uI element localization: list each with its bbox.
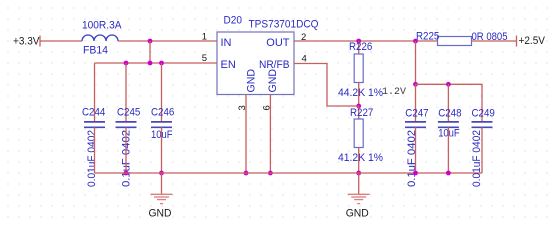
power port +2.5V bbox=[517, 35, 546, 47]
svg-text:GND: GND bbox=[267, 69, 279, 93]
svg-text:D20: D20 bbox=[224, 14, 243, 26]
junction on IN net bbox=[148, 39, 153, 44]
op-amp U1 : regulator IC body D20 bbox=[217, 32, 294, 95]
wire C245 top bbox=[125, 63, 127, 122]
ground symbol left bbox=[149, 173, 173, 219]
wire R227 top bbox=[358, 106, 360, 119]
wire EN net horizontal bbox=[95, 62, 218, 64]
svg-text:5: 5 bbox=[202, 53, 207, 64]
junction EN net at feed bbox=[148, 61, 153, 66]
wire +3.3V to FB14 bbox=[40, 40, 82, 42]
wire C246 bottom bbox=[161, 127, 163, 173]
wire R225 to +2.5V bbox=[472, 40, 517, 42]
junction C245 at rail bbox=[124, 171, 129, 176]
junction pin 6 at rail bbox=[268, 171, 273, 176]
svg-text:44.2K 1%: 44.2K 1% bbox=[338, 87, 383, 99]
svg-text:+3.3V: +3.3V bbox=[13, 35, 40, 47]
wire R227 bottom to rail bbox=[358, 148, 360, 174]
junction sub-rail at C248 bbox=[446, 82, 451, 87]
svg-text:EN: EN bbox=[221, 59, 236, 71]
svg-text:OUT: OUT bbox=[266, 37, 290, 49]
wire C249 bottom bbox=[481, 127, 483, 173]
svg-text:IN: IN bbox=[221, 37, 232, 49]
svg-text:R227: R227 bbox=[350, 107, 373, 119]
junction node FB bbox=[356, 104, 361, 109]
junction sub-rail at C247 bbox=[413, 82, 418, 87]
svg-text:C248: C248 bbox=[438, 108, 461, 120]
svg-text:GND: GND bbox=[245, 69, 257, 93]
svg-text:GND: GND bbox=[346, 207, 369, 219]
wire IN net down to EN net bbox=[149, 41, 151, 63]
capacitor C245 bbox=[116, 122, 137, 127]
wire pin 4 NR/FB to divider bbox=[294, 64, 359, 107]
wire C246 top bbox=[161, 63, 163, 122]
capacitor C247 bbox=[405, 122, 426, 127]
junction C248 at rail bbox=[446, 171, 451, 176]
capacitor C246 bbox=[151, 122, 172, 127]
svg-text:0.1uF 0402: 0.1uF 0402 bbox=[406, 130, 418, 187]
svg-text:C247: C247 bbox=[405, 108, 428, 120]
wire C247 bottom bbox=[415, 127, 417, 173]
wire R226 bottom to node FB bbox=[358, 83, 360, 107]
svg-text:R226: R226 bbox=[349, 41, 372, 53]
wire R226 top bbox=[358, 41, 360, 54]
svg-text:0.01uF 0402: 0.01uF 0402 bbox=[471, 130, 483, 187]
junction C247 at rail bbox=[413, 171, 418, 176]
wire FB14 to pin 1 IN bbox=[118, 40, 217, 42]
svg-text:C244: C244 bbox=[82, 107, 105, 119]
wire C247 top bbox=[415, 84, 417, 121]
svg-text:41.2K 1%: 41.2K 1% bbox=[338, 152, 383, 164]
wire C244 bottom bbox=[94, 127, 96, 173]
svg-text:10uF: 10uF bbox=[438, 127, 460, 139]
wire ground rail bbox=[95, 172, 483, 174]
wire OUT net pin 2 to R225 bbox=[294, 40, 438, 42]
wire C248 bottom bbox=[447, 127, 449, 173]
junction OUT at C247 tap bbox=[413, 39, 418, 44]
svg-text:TPS73701DCQ: TPS73701DCQ bbox=[249, 18, 319, 30]
svg-text:GND: GND bbox=[149, 207, 172, 219]
resistor R225 bbox=[438, 37, 472, 46]
power port +3.3V bbox=[13, 35, 40, 47]
svg-text:1.2V: 1.2V bbox=[382, 87, 406, 98]
capacitor C244 bbox=[84, 122, 105, 127]
svg-text:100R.3A: 100R.3A bbox=[82, 20, 122, 32]
capacitor C249 bbox=[472, 122, 493, 127]
junction OUT at R226 bbox=[356, 39, 361, 44]
wire cap sub-rail bbox=[416, 84, 483, 121]
resistor R227 bbox=[354, 119, 363, 148]
svg-text:1: 1 bbox=[202, 32, 207, 43]
svg-text:C245: C245 bbox=[117, 107, 140, 119]
svg-text:C249: C249 bbox=[472, 108, 495, 120]
wire pin 6 to ground rail bbox=[269, 95, 271, 174]
junction R227 at rail bbox=[356, 171, 361, 176]
junction EN net at C246 bbox=[159, 61, 164, 66]
ground symbol right bbox=[346, 173, 370, 219]
junction EN net at C245 bbox=[124, 61, 129, 66]
wire pin 3 to ground rail bbox=[245, 95, 247, 174]
wire C248 top bbox=[447, 84, 449, 121]
capacitor C248 bbox=[438, 122, 459, 127]
svg-text:FB14: FB14 bbox=[83, 45, 108, 57]
svg-text:0.01uF 0402: 0.01uF 0402 bbox=[86, 130, 98, 187]
inductor FB14 bbox=[82, 35, 118, 41]
wire C244 top bbox=[94, 63, 96, 122]
junction C246 at rail bbox=[159, 171, 164, 176]
wire C245 bottom bbox=[125, 127, 127, 173]
svg-text:C246: C246 bbox=[151, 107, 174, 119]
svg-text:+2.5V: +2.5V bbox=[519, 35, 546, 47]
junction pin 3 at rail bbox=[244, 171, 249, 176]
resistor R226 bbox=[354, 54, 363, 83]
wire OUT tap down to cap sub-rail bbox=[415, 41, 417, 84]
svg-text:R225: R225 bbox=[416, 31, 439, 43]
